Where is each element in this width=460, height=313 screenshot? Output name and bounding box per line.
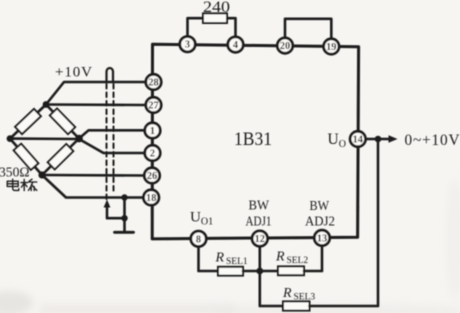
IC U1 1B31 box outline: [152, 44, 358, 239]
svg-text:1B31: 1B31: [234, 129, 272, 150]
svg-text:0~+10V: 0~+10V: [405, 132, 460, 149]
svg-text:ADJ2: ADJ2: [305, 213, 335, 228]
wire: bridge right node to pin 1: [79, 130, 146, 138]
node: output junction dot: [375, 136, 382, 143]
svg-text:1: 1: [150, 126, 155, 137]
shield cable dashed line left: [106, 84, 108, 199]
pin 13: [314, 230, 329, 245]
svg-text:R: R: [215, 251, 225, 266]
ground stem: [123, 218, 126, 231]
pin 19: [324, 39, 339, 54]
pin 18: [144, 190, 159, 205]
node: dot on pin 18 wire: [121, 194, 127, 200]
node: bridge right: [75, 135, 83, 143]
wire: RSEL1 to junction under pin 12: [243, 270, 260, 273]
bridge resistor bottom-right: [48, 144, 74, 169]
wire: RSEL2 from junction: [260, 270, 279, 273]
bridge edge wires: [10, 105, 79, 176]
svg-text:12: 12: [255, 234, 265, 245]
pin 28: [146, 74, 161, 89]
node: bridge bottom: [38, 171, 45, 178]
svg-text:14: 14: [353, 135, 363, 146]
pin 2: [145, 145, 160, 160]
bridge resistor bottom-left: [14, 144, 39, 170]
resistor RSEL3 body: [283, 301, 310, 310]
svg-text:ADJ1: ADJ1: [246, 214, 272, 229]
resistor RSEL1 body: [218, 267, 243, 276]
pin 27: [146, 97, 161, 112]
svg-text:19: 19: [326, 42, 336, 53]
wire: RSEL1 loop from pin 8: [199, 246, 219, 271]
pin 12: [252, 231, 267, 246]
ground bar: [115, 231, 134, 234]
svg-text:R: R: [282, 286, 292, 301]
svg-text:BW: BW: [310, 198, 330, 213]
wire: bridge bottom node to pin 26: [42, 174, 146, 177]
pin 26: [144, 168, 159, 183]
wire: bridge bottom node to pin 18: [42, 175, 146, 198]
node: bridge left: [7, 135, 14, 142]
label dianqiao (Chinese: bridge) drawn as strokes: [7, 179, 37, 190]
wire: bridge top node to +10V rail into pin 28: [46, 82, 146, 105]
svg-text:20: 20: [280, 41, 290, 52]
svg-text:SEL3: SEL3: [294, 292, 316, 302]
pin 14: [350, 131, 365, 146]
svg-text:2: 2: [150, 149, 155, 160]
bridge resistor top-right: [50, 108, 75, 134]
wire: jumper loop between pin 20 and pin 19: [285, 19, 331, 40]
pin 20: [277, 38, 292, 53]
bridge resistor top-left: [15, 109, 41, 134]
scan smudges (decorative): [0, 180, 460, 313]
output arrowhead: [389, 135, 398, 142]
svg-text:28: 28: [148, 78, 158, 89]
wire: RSEL3 to output junction riser: [310, 142, 379, 307]
wire: RSEL2 to pin 13: [304, 246, 322, 271]
pin 3: [180, 37, 195, 52]
resistor 240 body: [203, 13, 227, 23]
svg-text:4: 4: [233, 40, 238, 51]
svg-text:BW: BW: [249, 198, 270, 213]
resistor RSEL2 body: [278, 266, 304, 275]
svg-text:3: 3: [185, 40, 190, 51]
svg-text:SEL2: SEL2: [287, 256, 309, 266]
wire: resistor 240 loop to pin 4: [227, 18, 236, 38]
shield cable dashed line right: [113, 84, 115, 194]
wire: resistor 240 loop from pin 3 up: [188, 18, 204, 38]
svg-text:26: 26: [147, 171, 157, 182]
wire: shield to ground hook: [107, 198, 125, 219]
wire: bridge left node across to pin 2: [10, 139, 146, 153]
svg-text:13: 13: [317, 233, 327, 244]
wire: pin 12 down through junction to RSEL3 row: [260, 246, 283, 306]
pin 8: [191, 231, 206, 246]
node: junction dot under pin 12: [256, 268, 263, 275]
svg-text:SEL1: SEL1: [226, 257, 248, 267]
svg-text:18: 18: [146, 193, 156, 204]
shield arrowhead: [104, 200, 111, 208]
svg-text:350Ω: 350Ω: [0, 165, 30, 180]
pin 4: [228, 37, 243, 52]
wire: bridge top node to pin 27: [46, 103, 146, 106]
svg-text:27: 27: [148, 101, 158, 112]
node: bridge top: [43, 101, 50, 108]
shield cable top arch: [107, 68, 114, 81]
svg-text:R: R: [275, 250, 285, 265]
node: dot at ground corner: [121, 215, 127, 221]
wire: output from pin 14: [365, 138, 392, 141]
svg-text:240: 240: [203, 0, 230, 16]
svg-text:8: 8: [196, 234, 201, 245]
svg-text:+10V: +10V: [55, 65, 92, 81]
pin 1: [145, 123, 160, 138]
